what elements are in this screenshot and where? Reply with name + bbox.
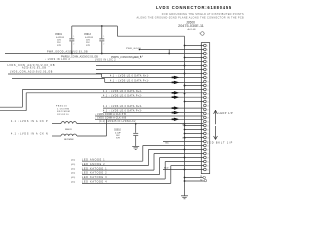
svg-text:8: 8 [207,73,208,75]
wire BCD to pin 32 [163,169,204,171]
svg-text:30: 30 [207,161,209,163]
pin 28 circle [204,152,207,155]
wire LED KATODE 3 staircase to pin 30 [82,178,165,180]
svg-text:LVDS_CON_A2(0:9)/2.03_OB: LVDS_CON_A2(0:9)/2.03_OB [10,71,53,74]
node PWR5V branch [168,53,170,55]
svg-text:1: 1 [207,45,208,47]
node ground stub pin 11 [184,85,186,87]
svg-text:20: 20 [207,121,209,123]
svg-text:2: 2 [207,49,208,51]
svg-text:LVDS CONNECTOR:61880455: LVDS CONNECTOR:61880455 [156,5,232,10]
pin 31 circle [204,164,207,167]
svg-text:1: 1 [73,36,74,38]
svg-text:A2(0:9)/2.03_OB: A2(0:9)/2.03_OB [22,66,46,69]
capacitor C6010 [133,124,138,147]
node box edge pin 21 [201,125,202,126]
node box edge pin 7 [201,69,202,70]
wire rail step down [116,26,118,36]
svg-text:24: 24 [207,137,209,139]
pin 4 circle [204,56,207,59]
node LVDSCLK2 at ground bus [184,123,186,125]
connector J2600 body [201,43,209,174]
wire LVDS bus upper descending to pin 9 row [8,73,102,75]
svg-text:↓ LVDS CONN A CLK N B: ↓ LVDS CONN A CLK N B [95,116,126,119]
node ground stub pin 21 [184,125,186,127]
wire LED ANODE 1 staircase to pin 26 [82,160,143,162]
wire ground stub to pin 15 [185,101,204,103]
svg-text:10: 10 [207,81,209,83]
svg-text:X7R: X7R [57,45,61,47]
wire ground stub to pin 1 [185,45,204,47]
capacitor C5919 value label [55,34,65,47]
pin 12 circle [204,88,207,91]
capacitor C5919 [69,26,74,54]
svg-text:4.1 ↑ LVDS LD.0 DATA N+3-: 4.1 ↑ LVDS LD.0 DATA N+3- [103,105,143,108]
wire ground stub to pin 24 [185,137,204,139]
node rail to bus corner [101,25,103,27]
node ground stub pin 8 [184,73,186,75]
node box edge pin 24 [201,137,202,138]
svg-text:↓ LVDS CONN A CLK P B: ↓ LVDS CONN A CLK P B [95,113,126,116]
wire LED KATODE 2 staircase to pin 29 [82,174,160,176]
svg-text:PWR_GOOD_A2(5V)/2.03_OB: PWR_GOOD_A2(5V)/2.03_OB [47,51,88,54]
svg-text:27: 27 [207,149,209,151]
pin 7 circle [204,68,207,71]
svg-text:14: 14 [207,97,209,99]
FB6010 reference label block [56,106,70,116]
svg-text:LVDS IN LOC 2: LVDS IN LOC 2 [95,59,116,61]
power rail wire from C5919 to connector [72,25,118,27]
svg-text:18: 18 [207,113,209,115]
node LVDSCLK2 to C6010 [135,123,137,125]
pin 1 circle [204,44,207,47]
wire ground stub to pin 22 [185,129,204,131]
svg-text:BCD: BCD [164,168,169,170]
svg-text:6: 6 [207,65,208,67]
arrowhead 4.1 ↑ LVDS LD.0 DATA N+2- [172,92,175,94]
pin 19 circle [204,116,207,119]
wire 4.1 ↑ LVDS LD.0 DATA N+1- [102,76,204,78]
arrowhead 4.1 ↑ LVDS LD.0 DATA P+3- [172,112,175,114]
svg-text:31: 31 [207,165,209,167]
wire LVDS bus lower descending to pin 10 row [12,78,105,80]
svg-text:4.1 ↑ LVDS LD.0 DATA P+2-: 4.1 ↑ LVDS LD.0 DATA P+2- [103,94,142,97]
wire FB6010 to connector LVDSCLK2 [77,123,204,125]
node C5919 to PWR wire [71,53,73,55]
svg-text:X7R: X7R [86,45,90,47]
svg-text:NFZ2MSM: NFZ2MSM [64,139,74,141]
wire LVDS power net to pin 5 [0,61,204,63]
wire 4.1 ↑ LVDS LD.0 DATA N+3- [103,107,204,109]
svg-text:(4.1): (4.1) [71,182,75,184]
pin 20 circle [204,120,207,123]
pin 3 circle [204,52,207,55]
wire LED KATODE 1 staircase to pin 28 [82,169,154,171]
pin 23 circle [204,132,207,135]
svg-text:9: 9 [207,77,208,79]
wire 4.1 ↑ LVDS LD.0 DATA P+3- [103,112,204,114]
node ground stub pin 1 [184,45,186,47]
svg-text:(4.1): (4.1) [71,164,75,166]
arrow down LED BKLT I/F [214,126,218,140]
svg-text:FB6011: FB6011 [65,129,72,131]
svg-text:20475-030E-11: 20475-030E-11 [178,24,204,28]
svg-text:LED BKLT 1/P: LED BKLT 1/P [207,141,233,144]
pin 10 circle [204,80,207,83]
svg-text:13: 13 [207,93,209,95]
wire to FB6010 [52,123,61,125]
arrowhead 4.1 ↑ LVDS LD.0 DATA P+2- [172,96,175,98]
svg-text:16: 16 [207,105,209,107]
svg-text:12: 12 [207,89,209,91]
node ground stub pin 22 [184,129,186,131]
wire ground stub to pin 7 [96,69,204,71]
pin 27 circle [204,148,207,151]
wire ground stub to pin 4 [185,57,204,59]
pin 17 circle [204,108,207,111]
svg-text:4.1 ↑ LVDS LD.0 DATA N+1-: 4.1 ↑ LVDS LD.0 DATA N+1- [110,75,150,78]
svg-text:4.1 ↑LVDS IN A CK P: 4.1 ↑LVDS IN A CK P [11,120,48,123]
node box edge pin 15 [201,101,202,102]
wire PWR5V vertical branch [168,50,170,54]
svg-text:4.1 ↑ LVDS LD.0 DATA P+1-: 4.1 ↑ LVDS LD.0 DATA P+1- [110,80,149,83]
svg-text:17: 17 [207,109,209,111]
svg-text:29: 29 [207,157,209,159]
pin 6 circle [204,64,207,67]
ferrite bead FB6011 [61,134,77,136]
node box edge pin 11 [201,85,202,86]
svg-text:S2: S2 [200,179,202,181]
svg-text:LEDP 1/P: LEDP 1/P [219,112,233,115]
svg-text:11: 11 [207,85,209,87]
wire ground stub to pin 11 [185,85,204,87]
ferrite bead FB6010 [61,122,77,124]
arrowhead 4.1 ↑ LVDS LD.0 DATA N+3- [172,107,175,109]
svg-text:19: 19 [207,117,209,119]
wire LVDS CONN A CLK N [95,118,204,120]
svg-text:4: 4 [207,57,208,59]
svg-text:28: 28 [207,153,209,155]
svg-text:1: 1 [103,36,104,38]
wire shield pin S1 [185,177,203,179]
svg-text:15: 15 [207,101,209,103]
wire 4.1 ↑ LVDS LD.0 DATA P+1- [105,81,204,83]
wire ground stub to pin 23 [185,133,204,135]
svg-text:A-01-0B: A-01-0B [187,28,196,31]
pin 5 circle [204,60,207,63]
pin 13 circle [204,92,207,95]
ground symbol below C6010 [132,146,139,149]
wire step up from left sheet edge to pin 12 row [0,106,22,108]
svg-text:4.1 ↑LVDS IN A CK N: 4.1 ↑LVDS IN A CK N [11,132,49,135]
wire 4.1 ↑ LVDS LD.0 DATA N+2- [101,92,204,94]
node ground stub pin 23 [184,133,186,135]
wire step up from left sheet edge to pin 13 row [0,110,26,112]
ground bus vertical wire [184,36,186,196]
svg-text:(4.1) LVDS25 IN LVDSCLK2: (4.1) LVDS25 IN LVDSCLK2 [99,121,136,123]
wire LED KATODE 4 staircase to pin 31 [82,182,171,184]
svg-text:(4.1): (4.1) [71,177,75,179]
capacitor C5913 [99,26,104,54]
pin 15 circle [204,100,207,103]
shield pin S1 circle [203,176,206,179]
pin 9 circle [204,76,207,79]
pin 26 circle [204,144,207,147]
node box edge pin 22 [201,129,202,130]
capacitor C5913 value label [84,34,94,47]
wire ground stub to pin 6 [96,65,204,67]
svg-text:NFZ2MSM: NFZ2MSM [57,111,70,113]
node box edge pin 1 [201,45,202,46]
wire ground stub to pin 21 [185,125,204,127]
pin 30 circle [204,160,207,163]
svg-text:(4.1): (4.1) [71,173,75,175]
wire ground stub to pin 8 [96,73,204,75]
wire FB6011 to CLK N row [77,135,107,137]
svg-text:C5919: C5919 [55,34,62,36]
svg-text:PWR5V_CONN_A2(5V)/2.03_OB: PWR5V_CONN_A2(5V)/2.03_OB [61,55,98,58]
pin 32 circle [204,168,207,171]
svg-text:1R5SZ10: 1R5SZ10 [57,114,69,116]
svg-text:(4.1): (4.1) [71,168,75,170]
node box edge pin 8 [201,73,202,74]
arrowhead LVDS CONN A CLK N [172,119,175,121]
svg-text:3: 3 [207,53,208,55]
svg-text:22: 22 [207,129,209,131]
svg-text:2: 2 [73,44,74,46]
pin 16 circle [204,104,207,107]
wire LVDS CONN A CLK P [95,115,204,117]
svg-text:23: 23 [207,133,209,135]
svg-text:(4.1): (4.1) [71,159,75,161]
pin 25 circle [204,140,207,143]
svg-text:C5913: C5913 [84,34,91,36]
ground symbol at bus bottom [181,196,188,199]
svg-text:4.1 ↑ LVDS LD.0 DATA N+2-: 4.1 ↑ LVDS LD.0 DATA N+2- [103,90,143,93]
wire 4.1 ↑ LVDS LD.0 DATA P+2- [101,96,204,98]
svg-text:X7R: X7R [116,138,120,140]
wire PWR5V branch to pin 2 [139,49,203,51]
wire BC to pin 25 [163,141,204,143]
pin 21 circle [204,124,207,127]
node box edge pin 6 [201,65,202,66]
svg-text:BC↑: BC↑ [166,141,170,144]
svg-text:1.5KOHM: 1.5KOHM [57,108,69,110]
node box edge pin 4 [201,57,202,58]
pin 8 circle [204,72,207,75]
svg-text:32: 32 [207,169,209,171]
node bus pin 11 [184,85,186,87]
node ground stub pin 4 [184,57,186,59]
wire to FB6011 [52,135,61,137]
svg-text:↓ LVDS IN LOC 2: ↓ LVDS IN LOC 2 [45,58,71,61]
svg-text:4.1: 4.1 [140,56,144,58]
node ground stub pin 15 [184,101,186,103]
svg-text:S1: S1 [200,176,202,178]
pin 24 circle [204,136,207,139]
pin 29 circle [204,156,207,159]
pin 18 circle [204,112,207,115]
pin 2 circle [204,48,207,51]
arrow up LEDP I/F [214,110,218,124]
node BCD on ground bus [184,169,186,171]
svg-text:2: 2 [103,44,104,46]
node ground stub pin 24 [184,137,186,139]
pin 14 circle [204,96,207,99]
node box edge pin 23 [201,133,202,134]
arrowhead 4.1 ↑ LVDS LD.0 DATA P+1- [172,82,175,84]
capacitor C6010 value label [114,130,121,140]
shield pin S2 circle [204,179,207,182]
wire shield pin S2 [185,180,205,182]
svg-text:FB6010: FB6010 [56,106,67,108]
node ground stub pin 6 [184,65,186,67]
svg-text:7: 7 [207,69,208,71]
svg-text:26: 26 [207,145,209,147]
node C5913 to PWR wire [101,53,103,55]
svg-text:ALONG THE GROUND-ZGND PLANE AL: ALONG THE GROUND-ZGND PLANE ALONG THE CO… [137,16,244,19]
wire LED ANODE 2 staircase to pin 27 [82,165,148,167]
node bus pin 13 [184,93,186,95]
arrowhead 4.1 ↑ LVDS LD.0 DATA N+1- [172,77,175,79]
wire PWR5V net to pin 3 [5,53,204,55]
svg-text:4.1 ↑ LVDS LD.0 DATA P+3-: 4.1 ↑ LVDS LD.0 DATA P+3- [103,110,142,113]
svg-text:5: 5 [207,61,208,63]
node bus pin 27 [184,149,186,151]
pin 11 circle [204,84,207,87]
svg-text:21: 21 [207,125,209,127]
pin 22 circle [204,128,207,131]
svg-text:C6010: C6010 [114,130,121,132]
svg-text:4.1 ↓: 4.1 ↓ [133,56,139,59]
node bus pin 29 [184,157,186,159]
